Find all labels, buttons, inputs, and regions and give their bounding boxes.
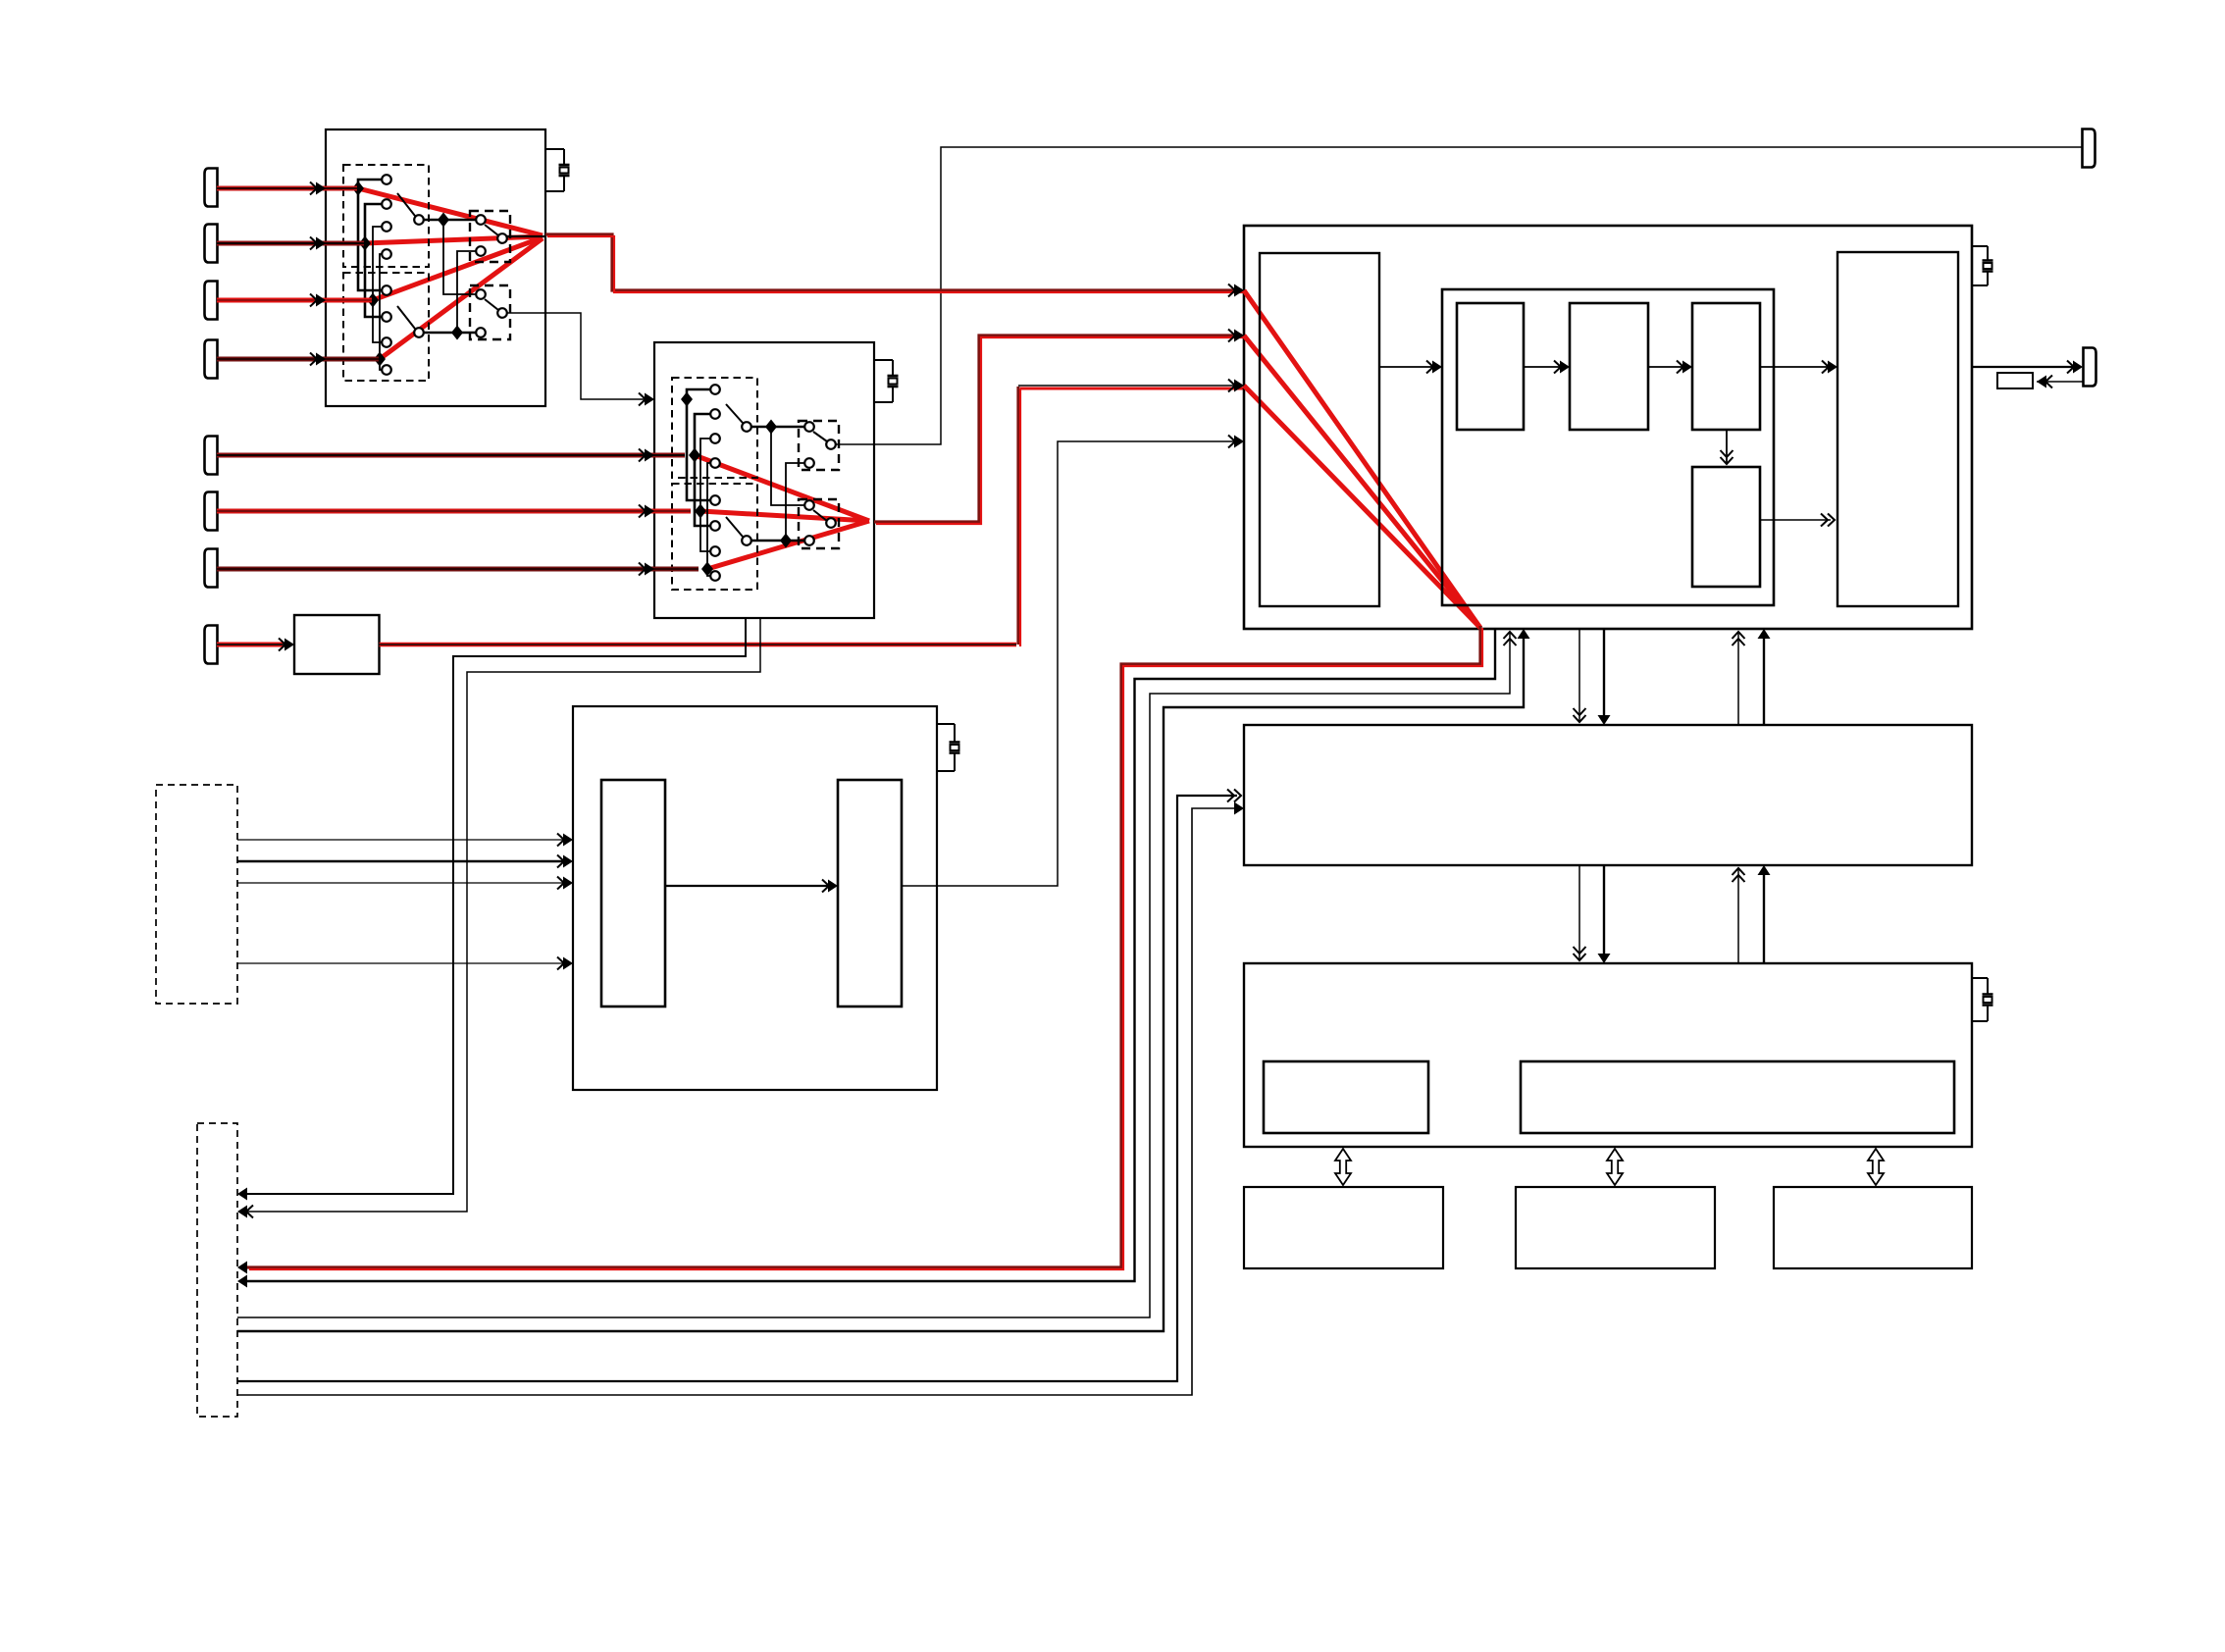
module box M3 [1774, 1187, 1972, 1268]
contact SW2 A1 [710, 385, 720, 394]
bidirectional bus arrow to M1 [1335, 1149, 1351, 1185]
wire SW1 junction D3 down to contact B3 [373, 300, 382, 342]
wire SW2 bottom 1 to lower connector [243, 618, 746, 1194]
main block driver section [1837, 252, 1958, 606]
crystal X1 stub on SW1 [545, 148, 564, 150]
contact SW2 B1 [710, 495, 720, 505]
arrowhead P1-4 [557, 957, 564, 970]
junction diamond E6 [780, 534, 792, 548]
junction diamond E5 [765, 420, 777, 435]
arrowhead W3 [310, 294, 317, 307]
switch blade SW1-D [485, 299, 498, 310]
contact SW2-D top [804, 500, 814, 510]
connector C8 [205, 626, 218, 664]
junction diamond D3 [367, 293, 379, 308]
wire bus1 to bus2 pair 2 [1603, 865, 1605, 954]
arrowhead down into bus2 2 [1598, 954, 1611, 963]
wire W3 from C3 to SW1 [217, 298, 372, 303]
wire P1-2 to relay box [237, 860, 565, 863]
arrowhead relay output into block [1228, 436, 1235, 448]
wire SW1-D output to SW2 [507, 313, 647, 399]
module box M1 [1244, 1187, 1443, 1268]
wire SW1 junction D3 to contact A3 [373, 227, 382, 300]
connector C4 [205, 340, 218, 379]
wire W2 from C2 to SW1 [217, 241, 364, 246]
wire SW2 junction E3 down to contact B3 [700, 511, 710, 551]
dashed connector block P1 [156, 785, 237, 1004]
wire bus1 to block right pair 2 [1763, 639, 1765, 725]
gateway block BUS2 outline [1244, 963, 1972, 1147]
arrowhead R3 to R4 [1721, 457, 1733, 464]
arrowhead up into block 2 [1758, 629, 1771, 639]
wire bus1 to block right pair 1 [1737, 633, 1739, 725]
arrowhead R1 to R2 [1554, 361, 1561, 374]
arrowhead wire C into block [1518, 629, 1530, 639]
switch SW1-B common contact [414, 328, 424, 337]
wire W1 from C1 to SW1 [217, 186, 357, 191]
arrowhead R3 to driver [1822, 361, 1829, 374]
switch blade SW2-C [813, 432, 827, 441]
wire D5 down to SW1-D top contact [443, 220, 477, 294]
connector C3 [205, 282, 218, 320]
junction diamond D2 [359, 236, 371, 251]
arrowhead up into bus1 2 [1758, 865, 1771, 875]
contact SW2 A3 [710, 434, 720, 443]
connector C7 [205, 549, 218, 588]
switch box SW2 outline [654, 342, 874, 618]
switch SW1-C common contact [497, 233, 507, 243]
arrowhead wire D into bus1 [1234, 790, 1241, 802]
wire D lower connector to bus1 [237, 796, 1237, 1381]
dashed switch group SW1-B [343, 273, 429, 381]
main control unit block outline [1244, 226, 1972, 629]
arrowhead up into block 1 [1733, 632, 1745, 639]
highlight path inside block from input 1 [1244, 290, 1480, 628]
wire SW2 junction E4 to contact A4 [707, 463, 710, 569]
arrowhead R2 to R3 [1677, 361, 1683, 374]
junction diamond E3 [695, 504, 706, 519]
wire SW2 junction E2 down to contact B2 [695, 455, 710, 526]
arrowhead SW2 bottom 2 [246, 1206, 253, 1218]
wire E lower connector to bus1 [237, 808, 1234, 1395]
crystal X2 stub on SW2 [874, 359, 893, 361]
junction diamond D5 [438, 213, 449, 228]
wire relay L to R [665, 885, 828, 887]
arrowhead wire E into bus1 [1234, 802, 1244, 815]
contact SW2 B4 [710, 571, 720, 581]
connector C2 [205, 225, 218, 263]
wire relay box output to main block [902, 441, 1234, 886]
wire bus2 to bus1 pair 2 [1763, 875, 1765, 963]
highlighted net SW2 output to main block [874, 336, 1242, 522]
switch blade SW2-D [813, 510, 827, 521]
arrowhead down into bus2 1 [1574, 954, 1586, 960]
wire SW1-C common to box edge [507, 235, 545, 237]
wire SW1 junction D4 to contact A4 [380, 254, 384, 359]
wire SW1 junction D2 to contact A2 [365, 204, 382, 243]
highlight current path SW2 wedge from E4 [707, 521, 869, 569]
switch blade SW2-B [726, 517, 743, 537]
arrowhead W1 [310, 182, 317, 195]
dashed relay box SW1-D [470, 285, 510, 339]
contact SW2 B3 [710, 546, 720, 556]
wire block to bus1 left pair 1 [1578, 629, 1580, 721]
wire C lower connector to block [237, 639, 1524, 1331]
arrowhead W6 [639, 505, 646, 518]
wire W8 output into main block [1020, 387, 1244, 390]
wire bus1 to bus2 pair 1 [1578, 865, 1580, 959]
switch blade SW1-C [485, 225, 498, 235]
contact SW2 A4 [710, 458, 720, 468]
wire R3 to driver [1760, 366, 1828, 368]
dashed relay box SW1-C [470, 211, 510, 262]
contact SW1-C top [476, 215, 486, 225]
wire SW2 junction E1 to contact A1 [687, 389, 710, 399]
sub-block R4 [1692, 467, 1760, 587]
junction diamond D6 [451, 326, 463, 340]
highlight current path SW1 wedge from D4 [380, 238, 543, 359]
relay box inner unit L [601, 780, 665, 1007]
relay box RB outline [573, 706, 937, 1090]
wire block to bus1 left pair 2 [1603, 629, 1605, 715]
wire P1-3 to relay box [237, 882, 563, 884]
switch box SW1 outline [326, 129, 545, 406]
switch SW1-A common contact [414, 215, 424, 225]
wire SW2 junction E1 down to contact B1 [687, 399, 710, 500]
highlighted net block output red return [247, 626, 1480, 1267]
dashed switch group SW2-A [672, 378, 757, 478]
contact SW1-C bottom [476, 246, 486, 256]
contact SW2 B2 [710, 521, 720, 531]
arrowhead into feedback box [2045, 376, 2052, 388]
arrowhead SW2 output into block [1228, 330, 1235, 342]
wire E5 down to SW2-D top contact [771, 427, 805, 505]
junction diamond E2 [689, 448, 700, 463]
bidirectional bus arrow to M3 [1868, 1149, 1884, 1185]
contact B3 [382, 337, 391, 347]
wire SW1-B common to junction D6 [423, 332, 477, 335]
arrowhead receiver to CPU [1426, 361, 1433, 374]
sub-block R2 [1570, 303, 1648, 430]
wire W8 output vertical rise [1016, 387, 1019, 645]
contact B2 [382, 312, 391, 322]
bus interface block BUS1 [1244, 725, 1972, 865]
dashed relay box SW2-D [799, 499, 839, 548]
arrowhead W2 [310, 237, 317, 250]
highlight current path SW2 wedge from E2 [695, 455, 869, 521]
junction diamond D4 [374, 352, 386, 367]
wire R3 down to R4 [1726, 430, 1728, 464]
contact SW2-D bottom [804, 536, 814, 545]
wire SW2-C output to top net [836, 147, 2082, 444]
contact SW2-C top [804, 422, 814, 432]
wire SW1 junction D1 down to contact B1 [358, 188, 382, 290]
wire block output to connector C10 [1972, 366, 2073, 368]
arrowhead wire A [237, 1275, 247, 1288]
dashed connector block P2 [197, 1123, 237, 1417]
contact B4 [382, 365, 391, 375]
wire SW2-B common to junction E6 [750, 540, 805, 542]
arrowhead down into bus1 1 [1574, 715, 1586, 722]
wire receiver to CPU [1379, 366, 1432, 368]
highlight current path SW1 wedge from D3 [373, 237, 543, 300]
wire P1-4 to relay box [237, 962, 563, 964]
dashed switch group SW1-A [343, 165, 429, 267]
contact A2 [382, 199, 391, 209]
wire D6 up to SW1-C bottom contact [457, 251, 477, 333]
switch blade SW2-A [726, 404, 743, 423]
wire C10 to feedback box [2037, 381, 2083, 383]
contact SW2 A2 [710, 409, 720, 419]
switch SW2-D common contact [826, 518, 836, 528]
arrowhead down into bus1 2 [1598, 715, 1611, 725]
switch SW2-C common contact [826, 439, 836, 449]
arrowhead red return into lower connector [237, 1262, 247, 1274]
connector C5 [205, 437, 218, 475]
highlight path inside block from input 3 [1244, 386, 1480, 628]
junction diamond E1 [681, 392, 693, 407]
switch SW1-D common contact [497, 308, 507, 318]
wire A block to lower connector [245, 629, 1495, 1281]
arrowhead P1-3 [557, 877, 564, 890]
switch SW2-B common contact [742, 536, 751, 545]
arrowhead W8 [279, 639, 285, 651]
wire R1 to R2 [1524, 366, 1560, 368]
contact SW1-D bottom [476, 328, 486, 337]
arrowhead relay L to R [822, 880, 829, 893]
wire SW1 junction D1 to contact A1 [358, 180, 382, 188]
wire W8 output from small box [380, 643, 1017, 647]
wire B lower connector to block [237, 633, 1510, 1317]
arrowhead P1-1 [557, 834, 564, 847]
bidirectional bus arrow to M2 [1607, 1149, 1623, 1185]
highlighted net SW1 output to main block [545, 234, 1242, 290]
crystal X3 stub on relay box [937, 723, 955, 725]
relay box inner unit R [838, 780, 902, 1007]
wire W8 from C8 to small box [217, 643, 290, 647]
wire SW2 bottom 2 to lower connector [245, 618, 760, 1212]
connector C6 [205, 492, 218, 531]
wire SW1-A common to junction D5 [423, 219, 477, 222]
wire W4 from C4 to SW1 [217, 357, 379, 362]
arrowhead W4 [310, 353, 317, 366]
contact B1 [382, 285, 391, 295]
sub-block R1 [1457, 303, 1524, 430]
arrowhead SW1-D output into SW2 [639, 393, 646, 406]
arrowhead SW1 output into block [1228, 284, 1235, 297]
highlight current path SW2 wedge from E3 [700, 511, 869, 521]
wire SW2 junction E2 to contact A2 [695, 414, 710, 455]
switch SW2-A common contact [742, 422, 751, 432]
highlight current path SW1 wedge from D1 [358, 188, 543, 235]
crystal X4 stub on main block [1972, 245, 1988, 247]
junction diamond D1 [352, 181, 364, 196]
arrowhead SW2 bottom 1 [237, 1188, 247, 1201]
BUS2 inner unit A [1264, 1061, 1428, 1133]
crystal X5 stub on BUS2 [1972, 977, 1988, 979]
contact SW2-C bottom [804, 458, 814, 468]
arrowhead block output [2067, 361, 2074, 374]
highlight path inside block from input 2 [1244, 336, 1480, 628]
arrowhead up into bus1 1 [1733, 868, 1745, 875]
switch blade SW1-B [397, 306, 415, 329]
highlight current path SW1 wedge from D2 [365, 236, 543, 243]
main block receiver section [1260, 253, 1379, 606]
feedback box FB [1997, 373, 2033, 388]
module box M2 [1516, 1187, 1715, 1268]
arrowhead W8 into block [1228, 380, 1235, 392]
arrowhead W5 [639, 449, 646, 462]
wire SW2-A common to junction E5 [750, 426, 805, 429]
connector C1 [205, 169, 218, 207]
wire E6 up to SW2-C bottom contact [786, 463, 805, 541]
sub-block R3 [1692, 303, 1760, 430]
wire SW1 junction D4 down to contact B4 [380, 359, 384, 370]
junction diamond E4 [701, 562, 713, 577]
contact A4 [382, 249, 391, 259]
main block CPU inner box [1442, 289, 1774, 605]
switch blade SW1-A [397, 193, 415, 216]
contact SW1-D top [476, 289, 486, 299]
wire W5 from C5 to SW2 [217, 453, 685, 458]
connector C10 right [2084, 348, 2096, 387]
wire SW1 junction D2 down to contact B2 [365, 243, 382, 317]
wire R4 to driver [1760, 519, 1831, 521]
wire W7 from C7 to SW2 [217, 567, 699, 572]
wire SW2 junction E4 down to contact B4 [707, 569, 710, 576]
wire SW2 junction E3 to contact A3 [700, 439, 710, 511]
arrowhead W7 [639, 563, 646, 576]
wire R2 to R3 [1648, 366, 1682, 368]
arrowhead P1-2 [557, 855, 564, 868]
contact A3 [382, 222, 391, 232]
small box B1 (chime) [294, 615, 380, 674]
BUS2 inner unit B [1521, 1061, 1954, 1133]
connector C9 top right [2083, 129, 2096, 168]
dashed switch group SW2-B [672, 484, 757, 590]
contact A1 [382, 175, 391, 184]
wire bus2 to bus1 pair 1 [1737, 869, 1739, 963]
arrowhead wire B into block [1504, 632, 1517, 639]
wire P1-1 to relay box [237, 839, 563, 841]
arrowhead R4 to driver [1828, 514, 1835, 527]
dashed relay box SW2-C [799, 421, 839, 470]
wire W6 from C6 to SW2 [217, 509, 691, 514]
